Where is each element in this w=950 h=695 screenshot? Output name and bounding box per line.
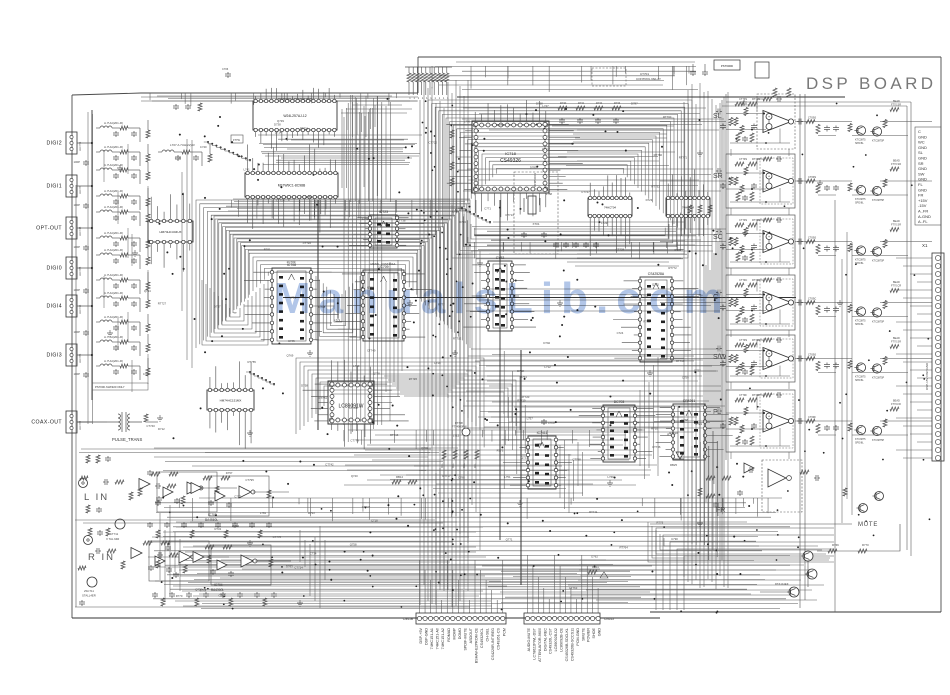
wire central vertical bus2 (471, 251, 473, 505)
junction (172, 437, 174, 439)
junction (776, 559, 778, 561)
junction (549, 530, 551, 532)
resistor SC fb (763, 218, 772, 222)
wire SL out (795, 121, 852, 123)
wire staircase B (462, 210, 466, 212)
junction (528, 480, 530, 482)
junction (452, 510, 454, 512)
junction (416, 209, 418, 211)
junction (477, 130, 479, 132)
svg-text:HM74HC151MX: HM74HC151MX (220, 398, 242, 402)
wire bottom mid fill (505, 596, 641, 598)
wire S/W row feed (471, 348, 720, 350)
wire bottom horizontal bus (194, 579, 765, 581)
wire bus loop around LC89091 (300, 362, 480, 430)
junction (204, 135, 206, 137)
svg-text:R778: R778 (656, 521, 663, 525)
wire bus stub3 (420, 498, 422, 519)
junction (158, 223, 160, 225)
wire mid drop bundle3 (639, 390, 641, 466)
resistor SR o2 (806, 179, 815, 183)
wire right-center vertical bus (715, 105, 717, 589)
wire CN41B pin riser (419, 560, 421, 613)
svg-text:L729: L729 (601, 221, 608, 225)
junction (439, 247, 441, 249)
wire lower-left horizontal bus (176, 521, 457, 523)
wire bus loop around CS49326 (468, 140, 653, 203)
wire top horizontal bus (439, 84, 663, 86)
wire bus loop around LC89091 (316, 378, 464, 414)
junction (787, 490, 789, 492)
resistor SL low2 (750, 133, 754, 142)
capacitor SC in (716, 231, 718, 233)
wire bottom horizontal bus2 (178, 564, 613, 566)
wire mid-right horizontal bus (487, 380, 698, 382)
capacitor C760 (561, 118, 563, 120)
connector CN515 (524, 613, 600, 624)
wire mid-right horizontal bus (466, 390, 721, 392)
resistor FL r3 (848, 423, 852, 431)
junction (803, 247, 805, 249)
junction (836, 103, 838, 105)
junction (344, 551, 346, 553)
wire bus loop mid-left (223, 227, 444, 322)
wire between top DIPs bus2 (287, 148, 403, 150)
wire bus loop mid-left (230, 234, 436, 314)
wire step stub (230, 93, 232, 104)
wire CN515 pin riser (565, 577, 567, 613)
wire COAX-OUT to bus (77, 421, 92, 423)
svg-text:1: 1 (435, 97, 437, 100)
wire top-mid horizontal bus (228, 210, 470, 212)
svg-text:KTC3875P: KTC3875P (872, 199, 885, 202)
junction (654, 598, 656, 600)
svg-text:D729: D729 (646, 198, 653, 202)
junction (434, 135, 436, 137)
wire bottom horizontal bus (165, 564, 790, 566)
junction (322, 246, 324, 248)
junction (874, 133, 876, 135)
junction (607, 234, 609, 236)
wire SR out (795, 180, 852, 182)
junction (434, 166, 436, 168)
wire bus stub3 (722, 498, 724, 510)
junction (271, 556, 273, 558)
junction (614, 476, 616, 478)
junction (321, 508, 323, 510)
junction (497, 557, 499, 559)
junction S/W b (751, 366, 753, 368)
wire bus stub3 (368, 498, 370, 520)
resistor SC in2 (748, 223, 757, 227)
wire analog LR divider (83, 522, 443, 524)
svg-text:D768: D768 (536, 102, 543, 106)
svg-text:L749: L749 (353, 364, 360, 368)
wire lower-left horizontal bus (193, 561, 450, 563)
junction (362, 287, 364, 289)
resistor S/W bx2 (744, 345, 748, 353)
resistor C r4 (883, 301, 887, 309)
wire SR row feed (463, 190, 721, 192)
svg-text:D712: D712 (158, 427, 165, 431)
svg-text:CT79S: CT79S (739, 218, 747, 222)
wire mute line (650, 523, 852, 525)
wire staircase B (481, 217, 483, 219)
junction (906, 381, 908, 383)
svg-text:CS49326L-CST: CS49326L-CST (549, 627, 553, 654)
op-amp SR (763, 170, 791, 192)
wire bus loop around CS49326 (453, 125, 667, 217)
wire top stub (507, 66, 509, 78)
transistor FR q1 (875, 492, 884, 501)
wire right connector feed (896, 289, 932, 291)
junction (422, 122, 424, 124)
junction (532, 317, 534, 319)
capacitor C fb (776, 279, 778, 281)
wire bottom horizontal bus2 (197, 573, 577, 575)
wire bus loop right of LC89091 (392, 384, 512, 422)
junction (563, 199, 565, 201)
svg-text:A.7UH(201-R): A.7UH(201-R) (104, 231, 123, 235)
wire C row feed (485, 294, 701, 296)
wire SC row feed (471, 250, 713, 252)
junction (435, 528, 437, 530)
svg-text:CT747: CT747 (581, 190, 590, 194)
capacitor S/W in (716, 348, 718, 350)
wire left border (71, 95, 73, 618)
wire S/W row feed (480, 359, 703, 361)
wire topstep line1 (141, 96, 418, 98)
resistor FL in3 (729, 417, 733, 425)
transistor C q2 (872, 308, 881, 317)
wire bus stub4 (482, 430, 484, 437)
wire SL row feed (463, 107, 706, 109)
svg-text:BEAD: BEAD (893, 400, 900, 403)
wire bus loop around LC89091 (332, 394, 448, 398)
wire mid drop bundle2 (559, 445, 561, 498)
wire S/W row feed (485, 370, 716, 372)
junction (162, 497, 164, 499)
junction (438, 323, 440, 325)
junction (369, 337, 371, 339)
junction (784, 205, 786, 207)
wire mid horizontal bus (365, 449, 637, 451)
wire CN515 pin riser (559, 566, 561, 613)
wire analog drop (159, 513, 161, 580)
wire staircase C (273, 383, 275, 385)
wire mute net2 (807, 561, 809, 587)
junction (422, 494, 424, 496)
wire CN515 pin riser (581, 555, 583, 613)
svg-text:Q758: Q758 (350, 543, 357, 547)
wire mid-right horizontal bus (475, 360, 694, 362)
junction (179, 134, 181, 136)
wire bottom band left deep (180, 575, 485, 577)
resistor C in3 (729, 299, 733, 307)
wire right of cs49326 b (567, 151, 675, 153)
svg-text:CR4261: CR4261 (683, 399, 696, 403)
wire mid drop bundle2 (573, 460, 575, 501)
resistor row under R (161, 598, 165, 606)
svg-text:ASDOUT: ASDOUT (469, 627, 473, 643)
svg-text:C783: C783 (218, 594, 225, 598)
wire step stub (311, 93, 313, 103)
transistor SC q2 (872, 247, 881, 256)
resistor R769 (828, 549, 837, 553)
wire bus loop around LC89091 (308, 370, 472, 422)
junction (507, 522, 509, 524)
wire bus loop mid-left (234, 238, 432, 310)
wire SR link down (730, 208, 732, 215)
wire right-center vertical bus (719, 103, 721, 576)
wire bus loop between DIPs (330, 290, 345, 325)
amp block SL dashed (757, 94, 795, 149)
junction (419, 487, 421, 489)
svg-text:L719: L719 (434, 361, 441, 365)
wire left bus pair (92, 114, 94, 424)
wire analog drop2 (299, 530, 301, 562)
junction (363, 551, 365, 553)
svg-text:A.7UH(201-R): A.7UH(201-R) (104, 315, 123, 319)
resistor R741 (412, 67, 414, 73)
wire SR row feed (468, 179, 699, 181)
wire mid horizontal bus (348, 429, 645, 431)
wire topleft risers (352, 95, 354, 137)
svg-text:1: 1 (418, 97, 420, 100)
transistor S/W q1 (856, 363, 865, 372)
wire analog LR divider (75, 519, 435, 521)
junction (228, 268, 230, 270)
svg-text:A..FL: A..FL (918, 219, 928, 224)
junction (221, 335, 223, 337)
wire bottom mid fill (489, 581, 628, 583)
resistor R770 (858, 549, 867, 553)
wire top stub (624, 66, 626, 73)
junction (91, 267, 93, 269)
wire SC box mid (726, 233, 764, 235)
wire bottom band right (579, 564, 804, 566)
junction (716, 573, 718, 575)
amp block SC (726, 215, 795, 268)
svg-text:JAC753: JAC753 (78, 141, 82, 151)
capacitor C bx (753, 305, 755, 307)
wire CN515 pin riser (575, 599, 577, 613)
wire bus stub2 (676, 242, 678, 251)
svg-text:A..FR: A..FR (918, 209, 928, 214)
wire right of cs49326 (573, 141, 684, 143)
watermark ManualsLib.com (274, 274, 731, 324)
svg-text:CT69C: CT69C (808, 297, 816, 301)
junction (452, 589, 454, 591)
op-amp L IN stage2 (209, 476, 269, 516)
junction (460, 543, 462, 545)
capacitor C vc2 (835, 307, 837, 309)
wire staircase C (246, 372, 250, 374)
wire top stub (590, 66, 592, 80)
svg-text:CT69F: CT69F (808, 415, 816, 419)
ground (609, 480, 611, 483)
wire bottom horizontal bus (164, 507, 745, 509)
wire CN41B pin riser (468, 600, 470, 613)
junction (469, 498, 471, 500)
wire mid-right horizontal bus3 (491, 416, 683, 418)
resistor SL bx1 (734, 118, 738, 126)
wire between top DIPs bus (265, 155, 419, 157)
junction (452, 406, 454, 408)
svg-text:JAC76: JAC76 (78, 186, 82, 194)
svg-text:A-GND: A-GND (918, 214, 931, 219)
svg-text:Q778: Q778 (373, 372, 380, 376)
wire SL box bottom (730, 142, 790, 144)
wire left-mid vertical bus (356, 98, 358, 431)
wire bus stub4 (514, 430, 516, 436)
ground (519, 500, 521, 503)
svg-text:D785: D785 (530, 166, 537, 170)
junction (430, 152, 432, 154)
wire right block frame top2 (722, 105, 907, 107)
wire CN41B pin riser (424, 570, 426, 613)
junction (501, 446, 503, 448)
junction (716, 610, 718, 612)
capacitor SR bx (753, 183, 755, 185)
wire mid horizontal bus (372, 459, 629, 461)
wire CN515 pin riser (527, 555, 529, 613)
resistor C bx2 (744, 289, 748, 297)
wire bus loop mid-left (226, 230, 439, 317)
transistor SL q1 (856, 126, 865, 135)
junction (739, 573, 741, 575)
junction (196, 516, 198, 518)
capacitor C731 (85, 203, 87, 205)
wire SL input (660, 121, 726, 123)
wire FL row feed (489, 422, 710, 424)
junction (435, 336, 437, 338)
svg-text:1: 1 (422, 97, 424, 100)
junction (217, 125, 219, 127)
wire right of cs49326 (577, 129, 673, 131)
svg-text:S/W: S/W (713, 354, 727, 361)
resistor S/W low2 (750, 366, 754, 375)
svg-text:C: C (918, 129, 921, 134)
svg-text:LC89092B-D2: LC89092B-D2 (554, 628, 558, 651)
capacitor SL o1 (797, 121, 799, 123)
svg-text:Q721: Q721 (521, 455, 528, 459)
resistor S/W in4 (740, 363, 744, 371)
wire right connector feed (917, 409, 932, 411)
junction (544, 240, 546, 242)
junction (556, 382, 558, 384)
svg-text:CT722: CT722 (429, 140, 438, 144)
junction (497, 424, 499, 426)
junction (232, 608, 234, 610)
junction (372, 554, 374, 556)
wire right-center vertical bus (695, 104, 697, 580)
wire mid-right horizontal bus3 (484, 426, 672, 428)
wire analog R bottom (75, 606, 470, 608)
junction (480, 514, 482, 516)
ground (649, 370, 651, 373)
svg-text:Q744: Q744 (144, 289, 151, 293)
svg-text:JAC748: JAC748 (78, 226, 82, 236)
wire bottom band right (586, 589, 812, 591)
resistor S/W low1 (736, 366, 740, 375)
wire topleft risers (347, 112, 349, 130)
wire bus loop mid-left2 (225, 227, 440, 320)
wire lower-left horizontal bus (176, 526, 483, 528)
junction (911, 184, 913, 186)
junction FL a (763, 412, 765, 414)
wire left-mid vertical bus2 (397, 260, 399, 396)
wire bottom band right (579, 569, 810, 571)
junction (315, 564, 317, 566)
junction (702, 264, 704, 266)
wire right connector feed (903, 425, 932, 427)
wire right-center vertical bus (691, 84, 693, 584)
wire CN41B pin riser (452, 570, 454, 613)
junction (183, 268, 185, 270)
svg-text:Q769: Q769 (286, 353, 293, 357)
junction (855, 263, 857, 265)
resistor SC low1 (736, 252, 740, 261)
wire top horizontal bus (462, 70, 696, 72)
wire bus loop mid-left (245, 249, 420, 298)
junction (715, 550, 717, 552)
junction (407, 212, 409, 214)
junction (914, 274, 916, 276)
resistor R752 (787, 88, 791, 97)
junction (592, 114, 594, 116)
wire bottom band right (568, 584, 824, 586)
ground (479, 260, 481, 263)
wire mid horizontal bus2 (406, 474, 565, 476)
wire bus stub (344, 200, 346, 210)
junction (299, 460, 301, 462)
wire lower-left horizontal bus2 (205, 452, 439, 454)
wire SL gnd drop (818, 135, 836, 137)
resistor C bead (890, 289, 899, 293)
svg-text:ROMAD: ROMAD (447, 628, 451, 642)
connector DIGI0 (66, 257, 77, 279)
wire bus stub3 (743, 498, 745, 507)
resistor SL fb (763, 97, 772, 101)
svg-text:IC7411: IC7411 (537, 431, 548, 435)
junction (571, 143, 573, 145)
junction (410, 288, 412, 290)
wire topleft risers (361, 113, 363, 132)
wire top horizontal bus (431, 79, 664, 81)
junction (313, 174, 315, 176)
resistor S/W fb (763, 338, 772, 342)
svg-text:D757: D757 (226, 471, 233, 475)
resistor S/W in3 (729, 355, 733, 363)
capacitor C751 (692, 70, 694, 72)
svg-text:IC723: IC723 (379, 210, 388, 214)
junction (451, 511, 453, 513)
junction (678, 406, 680, 408)
resistor R732 (594, 106, 603, 110)
junction (323, 290, 325, 292)
inductor L703 filter (96, 211, 100, 213)
junction (278, 342, 280, 344)
wire SR gnd drop (818, 194, 836, 196)
wire staircase A (241, 155, 243, 157)
junction (716, 612, 718, 614)
wire SR fb loop (757, 159, 764, 170)
wire bus loop mid-left (261, 265, 406, 284)
wire staircase B (473, 213, 475, 215)
svg-text:+15V: +15V (918, 198, 928, 203)
wire analog box right edge (443, 455, 445, 589)
